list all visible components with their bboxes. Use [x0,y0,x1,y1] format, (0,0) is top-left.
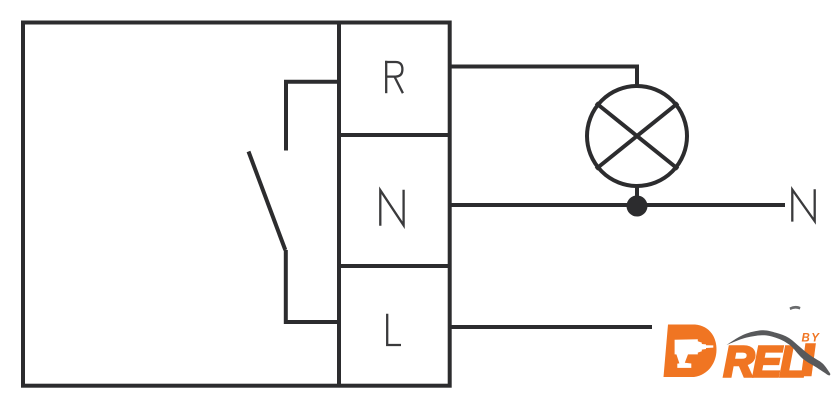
svg-text:BY: BY [802,333,821,345]
lamp E1 cross stroke 2 [596,103,678,169]
device body (sensor housing outline) [23,23,450,386]
lamp E1 cross stroke 1 [596,103,678,169]
terminal block left edge [337,23,341,386]
logo letter I (tall) [801,343,816,376]
logo small dash [790,306,801,310]
terminal divider R/N [339,133,450,137]
wire R terminal to lamp [450,67,637,87]
junction node at lamp/N wire [627,196,648,217]
wire N line [450,203,785,207]
net label N (right) [792,189,814,221]
wire lamp bottom lead [635,186,639,205]
logo drill cutout in D [675,339,714,368]
switch S1 lower lead wire [286,250,340,322]
Dreli logo [664,306,831,387]
terminal label R [385,61,403,93]
switch S1 fixed contact wire [286,82,340,151]
terminal divider N/L [339,264,450,268]
wire L line [450,325,652,329]
logo swoosh [727,330,831,375]
lamp E1 circle [587,86,687,186]
terminal label L [387,314,401,345]
terminal label N [380,190,403,226]
logo letter D [664,325,717,378]
switch S1 blade [249,152,286,251]
